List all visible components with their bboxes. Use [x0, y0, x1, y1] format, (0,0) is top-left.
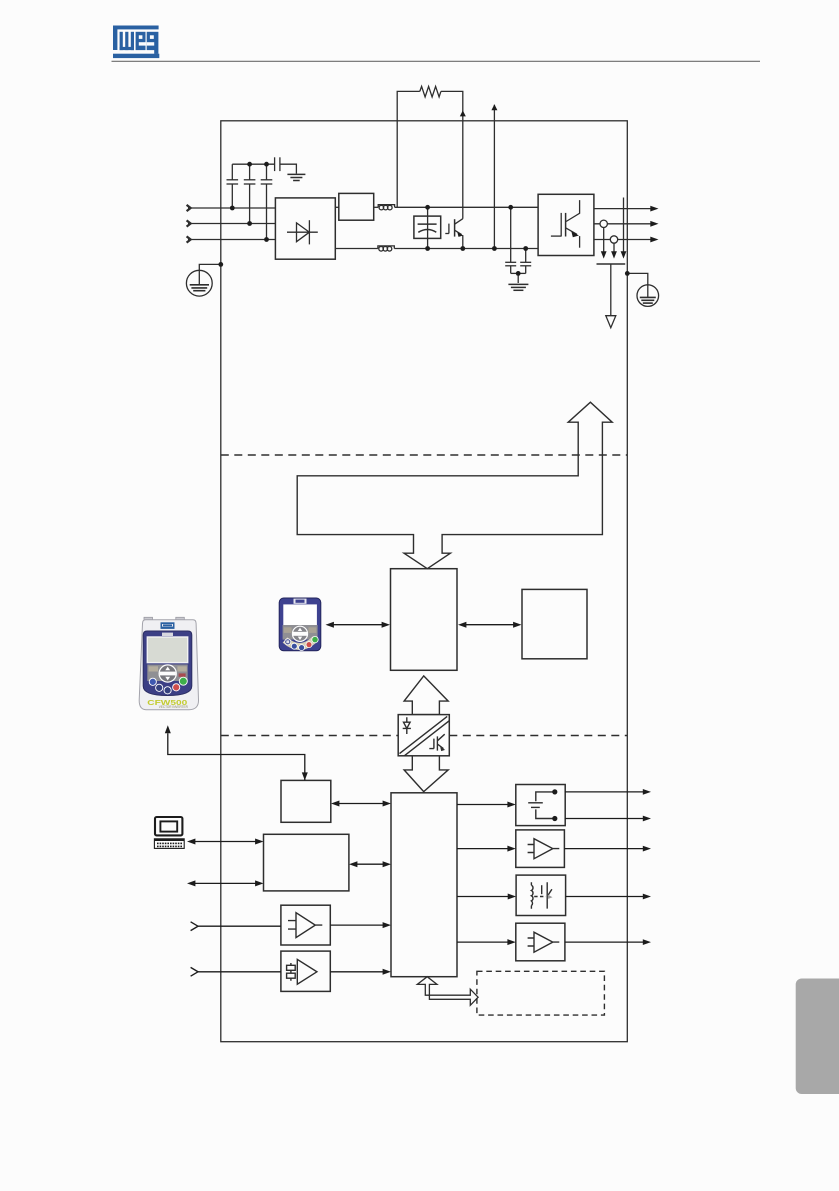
analog output line [564, 848, 643, 850]
DC link capacitor [414, 216, 441, 238]
wire DC+ bus [395, 206, 538, 208]
RFI capacitor C1 [231, 184, 233, 208]
serial interface block [264, 834, 349, 891]
analog input block [281, 905, 330, 945]
relay contact dots [552, 789, 557, 794]
digital output amp symbol [528, 932, 560, 952]
wire DC- sense leg [493, 105, 495, 249]
keypad navy panel [143, 631, 192, 696]
Y-capacitor branch from DC- [525, 249, 527, 263]
keypad panel logo [162, 633, 173, 636]
bent hollow arrow to accessory slot [417, 977, 478, 1006]
braking resistor [420, 86, 441, 97]
transistor output symbol [530, 882, 532, 908]
wire bar to open arrow [610, 264, 612, 316]
braking resistor circuit wires [397, 91, 420, 207]
wire Y-cap common to earth [511, 272, 526, 274]
wire top bus of RFI caps [232, 163, 274, 165]
output line W [594, 239, 651, 241]
big bent hollow arrow control-to-power [297, 402, 612, 569]
precharge block [339, 193, 374, 220]
feedback collector bar [597, 263, 626, 265]
relay output block [516, 785, 565, 826]
current sensor W [610, 236, 617, 243]
input terminal chevron 1 [187, 205, 191, 211]
pc keyboard [154, 839, 184, 849]
RFI capacitor C2 [249, 184, 251, 224]
dashed separator control/io (right) [449, 735, 627, 737]
arrow HMI-IO (bidir) [335, 803, 388, 805]
ground symbol (DC link) [508, 283, 528, 285]
filled arrowheads power [457, 104, 658, 258]
right PE circle symbol [637, 285, 659, 307]
small keypad body [279, 598, 321, 651]
rectifier block [275, 198, 335, 259]
keypad nav wheel [159, 665, 176, 682]
series capacitor to earth [274, 157, 276, 171]
keypad WEG logo [161, 622, 175, 629]
junction DC- brake IGBT [460, 246, 465, 251]
junction L3-cap [264, 237, 269, 242]
arrow digital input to IO [330, 971, 387, 973]
analog input amp symbol [288, 913, 322, 938]
current sensor V [600, 220, 607, 227]
arrow output U [650, 206, 658, 212]
DC link choke + [378, 205, 394, 208]
wire remote keypad to HMI block [168, 733, 305, 780]
arrow down sensor W [611, 251, 617, 258]
analog input line [198, 925, 281, 927]
digital output line [565, 941, 643, 943]
arrow analog input to IO [330, 924, 387, 926]
WEG logo [113, 26, 159, 59]
dashed separator power/control [221, 454, 628, 456]
left PE wire [199, 264, 221, 270]
braking IGBT Q1 [445, 233, 449, 235]
inverter block [538, 194, 594, 255]
small keypad logo chip [294, 599, 307, 604]
keypad LCD [147, 637, 187, 663]
HMI connector block [281, 780, 331, 822]
CPU block [391, 569, 458, 671]
arrow up BR leg [460, 110, 466, 116]
arrow down sensor V [601, 251, 607, 258]
gray side tab [796, 979, 839, 1095]
small keypad key zone [283, 625, 318, 640]
arrow up to remote keypad [165, 725, 171, 733]
digital input line [198, 971, 281, 973]
small keypad LCD [283, 604, 317, 625]
keypad key zone [147, 665, 187, 682]
sensor feedback drop W [613, 243, 615, 251]
arrow down voltage fb [621, 251, 627, 258]
IO block [391, 793, 457, 977]
arrow ext-serial (bidir) [191, 882, 261, 884]
keypad body [144, 617, 153, 621]
junction DC+ Y-cap [508, 205, 513, 210]
input line L3 [188, 239, 275, 241]
arrow serial-IO (bidir) [353, 863, 388, 865]
small keypad nav wheel [292, 626, 307, 641]
dashed separator control/io (left) [221, 735, 398, 737]
junction cap bus 2 [264, 162, 269, 167]
small keypad buttons [285, 639, 291, 645]
inverter IGBT symbol [566, 200, 580, 221]
outer enclosure box [221, 121, 628, 1042]
arrow emitter inverter IGBT [571, 231, 579, 237]
digital output block [516, 923, 565, 961]
relay output line 1 [565, 791, 643, 793]
arrow down into HMI block [302, 772, 308, 780]
isolation diagonal lines [400, 716, 448, 753]
hollow arrow isolation-IO (down) [404, 756, 448, 792]
relay contact symbol [536, 792, 555, 819]
arrow IO-analog out [457, 848, 513, 850]
hollow arrow CPU-isolation (up) [404, 676, 448, 715]
keypad buttons [149, 678, 156, 685]
wire DC- from rectifier [335, 248, 378, 250]
isolation block [398, 715, 449, 756]
horizontal rule under logo [112, 60, 761, 62]
arrow keypad-CPU (bidir) [329, 624, 387, 626]
analog output block [516, 830, 565, 868]
arrow emitter brake IGBT [457, 232, 463, 237]
transistor output line [566, 896, 643, 898]
pc keyboard keys [157, 843, 182, 848]
arrow output V [650, 221, 658, 227]
wire resistor to BR leg [441, 91, 463, 218]
junction right PE [625, 271, 630, 276]
output line V [594, 223, 651, 225]
digital input block [281, 951, 330, 991]
right PE wire [627, 273, 648, 284]
arrow IO-digital out [457, 941, 513, 943]
digital input opto symbol [297, 959, 317, 984]
accessory slot (dashed) [477, 971, 605, 1015]
isolation zener symbol [403, 717, 411, 734]
junction left PE [218, 262, 223, 267]
svg-text:VECTOR INVERTER: VECTOR INVERTER [159, 705, 189, 709]
wire precharge to choke [374, 206, 379, 208]
Y-capacitor branch from DC+ [510, 207, 512, 262]
pc monitor [155, 817, 182, 835]
analog output amp symbol [528, 839, 560, 859]
arrow output W [650, 237, 658, 243]
input terminal chevron 2 [187, 220, 191, 226]
small keypad beige arc [285, 639, 315, 647]
rectifier diode symbol [287, 231, 318, 233]
arrow PC-serial (bidir) [191, 841, 261, 843]
junction DC- link cap [425, 246, 430, 251]
sensor feedback drop V [603, 228, 605, 252]
relay output line 2 [565, 818, 643, 820]
junction L2-cap [247, 221, 252, 226]
transistor output block [516, 875, 566, 915]
left PE circle symbol [186, 270, 212, 296]
arrow IO-transistor out [457, 896, 513, 898]
input line L2 [188, 223, 275, 225]
input line L1 [188, 207, 275, 209]
wire rectifier to precharge [335, 206, 339, 208]
junction Y-cap common [516, 271, 521, 276]
junction DC- Y-cap [523, 246, 528, 251]
arrow CPU-memory (bidir) [462, 624, 519, 626]
RFI capacitor C3 [266, 184, 268, 240]
junction cap bus 1 [247, 162, 252, 167]
voltage feedback drop [623, 198, 625, 252]
input terminal chevron 3 [187, 236, 191, 242]
output line U [594, 208, 651, 210]
ground (earth) symbol [287, 173, 305, 175]
memory block [522, 589, 587, 658]
arrow up DC sense leg [491, 104, 497, 110]
wire cap to ground [280, 164, 297, 173]
wire DC- bus [394, 248, 538, 250]
isolation IGBT symbol [429, 734, 444, 750]
DC link choke - [378, 246, 394, 249]
junction DC+ link cap [425, 205, 430, 210]
arrow IO-relay [457, 804, 513, 806]
junction DC- sense [492, 246, 497, 251]
open arrow down [606, 316, 616, 328]
junction L1-cap [230, 206, 235, 211]
